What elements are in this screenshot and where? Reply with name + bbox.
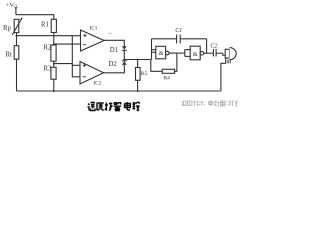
op-amp IC2 <box>80 62 104 85</box>
svg-text:&: & <box>159 50 164 57</box>
wire gate1 input stubs <box>152 49 156 51</box>
wire R2-R3 junction lead <box>53 61 55 67</box>
junction dot R5 ground <box>137 90 139 92</box>
junction dot R5 top <box>137 59 139 61</box>
potentiometer Rp <box>12 17 22 36</box>
resistor R1 <box>51 19 56 45</box>
resistor R3 <box>51 67 56 91</box>
wire gate2 input tie <box>185 50 190 57</box>
wire between gates <box>169 52 185 54</box>
wire speaker to ground <box>221 58 226 91</box>
NAND gate U2 <box>190 46 204 60</box>
wire sensor node to IC2 inverting input <box>72 36 80 77</box>
diode D2 <box>122 60 127 65</box>
ground bottom rail <box>17 90 221 92</box>
svg-text:R2: R2 <box>44 44 53 51</box>
wire diode junction to gate input <box>124 59 151 61</box>
watermark grey text (stroke glyphs) <box>182 101 238 107</box>
NAND gate U1 <box>156 46 169 59</box>
wire gate1 input vertical <box>151 39 153 60</box>
capacitor C1 feedback <box>152 35 207 54</box>
wire Vcc lead <box>15 8 17 15</box>
svg-text:R5: R5 <box>141 71 148 77</box>
svg-text:IC2: IC2 <box>94 81 102 87</box>
wire top rail <box>16 15 54 20</box>
wire C2 to speaker <box>223 53 225 55</box>
svg-text:IC1: IC1 <box>90 26 98 32</box>
resistor R5 <box>136 60 141 92</box>
diode D1 <box>122 46 127 59</box>
faint dash mark <box>109 32 112 34</box>
wire node A (sensor) horizontal <box>17 35 81 37</box>
junction dot R1-R2 <box>53 43 55 45</box>
svg-text:C1: C1 <box>175 28 182 34</box>
thermistor Rt <box>14 36 19 91</box>
junction dot Rp/Rt-node A <box>16 35 18 37</box>
junction dot R2-R3 <box>53 63 55 65</box>
wire gate2 output <box>204 52 214 54</box>
speaker LS (earphone) <box>225 48 236 64</box>
wire IC1 output <box>104 40 124 46</box>
svg-text:R3: R3 <box>44 65 53 72</box>
wire IC2 output <box>104 65 125 73</box>
svg-text:R4: R4 <box>164 75 171 81</box>
resistor R2 <box>51 45 56 61</box>
wire to IC2 non-inverting input <box>54 63 73 65</box>
svg-text:C2: C2 <box>210 44 217 50</box>
node +Vcc label <box>6 2 19 9</box>
junction dot R3-ground rail <box>53 90 55 92</box>
caption 温度报警电路 (stroke glyphs) <box>88 102 140 111</box>
svg-text:R1: R1 <box>41 22 49 29</box>
op-amp IC1 <box>81 30 105 51</box>
svg-text:&: & <box>193 51 198 58</box>
svg-text:D1: D1 <box>110 47 118 54</box>
wire to IC1 inverting input <box>54 43 81 45</box>
svg-text:Rp: Rp <box>3 25 12 32</box>
svg-text:Rt: Rt <box>6 52 13 59</box>
resistor R4 feedback <box>151 53 177 73</box>
capacitor C2 <box>213 49 222 57</box>
junction dot diodes <box>123 59 125 61</box>
svg-text:D2: D2 <box>109 61 118 68</box>
